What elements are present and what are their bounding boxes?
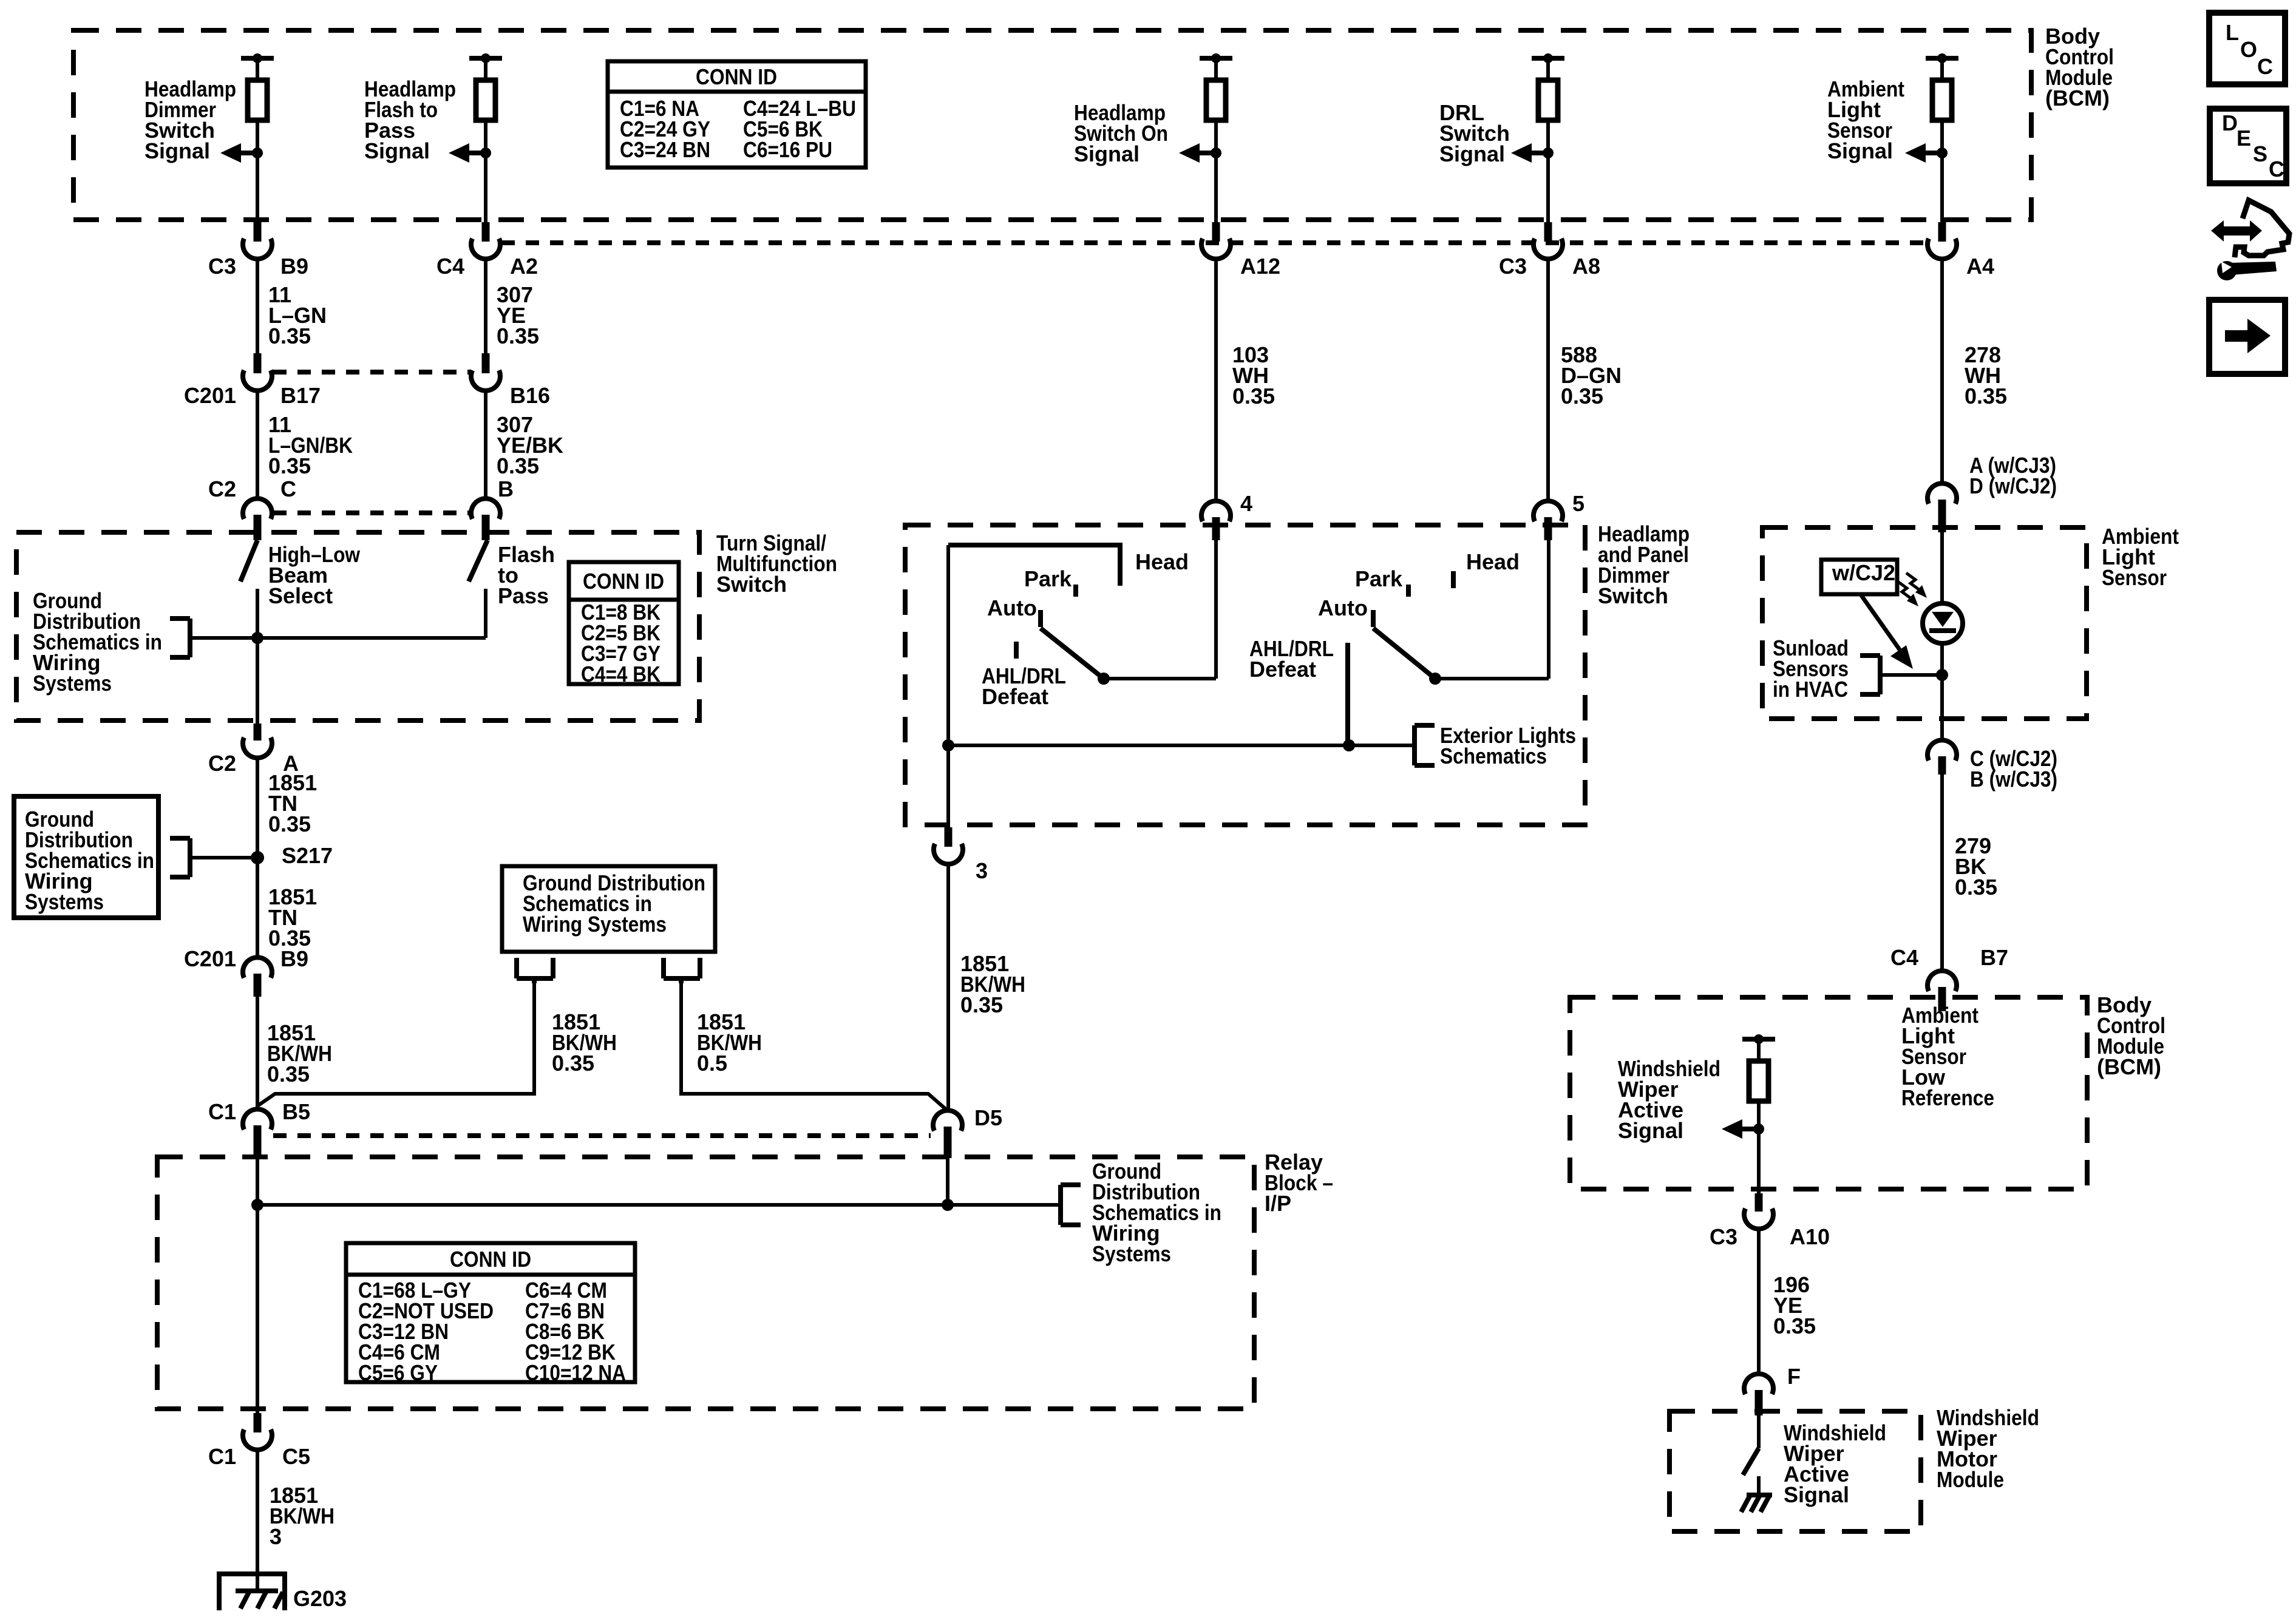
svg-text:0.35: 0.35 — [497, 453, 539, 478]
connector A12 — [1201, 239, 1231, 259]
svg-text:Switch: Switch — [1598, 583, 1668, 608]
svg-text:0.35: 0.35 — [1232, 384, 1275, 408]
switch contact bar right — [1435, 677, 1549, 680]
AHL/DRL defeat line (right) — [1345, 643, 1350, 745]
svg-text:0.35: 0.35 — [268, 453, 311, 478]
pin stub 3 — [945, 827, 953, 847]
svg-text:C: C — [2257, 54, 2273, 79]
svg-text:C2: C2 — [208, 476, 236, 501]
w/CJ2 arrow — [1861, 595, 1901, 651]
svg-text:Systems: Systems — [25, 889, 104, 914]
wire to D5 — [946, 864, 950, 1112]
bracket gnd dist (turn signal box) — [188, 619, 192, 657]
svg-text:C3: C3 — [1710, 1224, 1737, 1249]
junction dot AHL line — [1343, 739, 1355, 751]
svg-text:G203: G203 — [293, 1586, 347, 1611]
switch blade auto right — [1373, 628, 1435, 679]
connector A/D — [1927, 483, 1957, 504]
svg-text:A4: A4 — [1966, 254, 1994, 279]
wire wiper inside motor module — [1757, 1415, 1761, 1448]
svg-text:D5: D5 — [974, 1105, 1002, 1130]
tick Park left — [1073, 585, 1078, 597]
svg-text:in HVAC: in HVAC — [1773, 677, 1848, 702]
svg-text:C3: C3 — [1499, 254, 1527, 279]
svg-text:Wiring Systems: Wiring Systems — [523, 912, 667, 937]
resistor headlamp dimmer — [248, 80, 267, 120]
svg-text:B7: B7 — [1980, 945, 2008, 970]
pin stub A12 — [1212, 222, 1220, 242]
svg-text:C4: C4 — [1890, 945, 1918, 970]
wire wiper — [1757, 1101, 1761, 1193]
relay ground bus — [257, 1203, 1061, 1207]
photodiode triangle — [1932, 612, 1954, 627]
resistor DRL switch — [1538, 80, 1558, 120]
svg-text:D (w/CJ2): D (w/CJ2) — [1969, 473, 2057, 498]
svg-text:C4=4 BK: C4=4 BK — [581, 662, 661, 686]
connector C201/B17 — [243, 370, 272, 391]
pin stub C2/C — [254, 515, 262, 540]
pin stub 5 — [1544, 517, 1552, 540]
sunload branch wire — [1882, 673, 1942, 677]
Windshield Wiper Motor Module dashed box — [1669, 1411, 1921, 1531]
svg-text:w/CJ2: w/CJ2 — [1832, 560, 1895, 585]
connector C3/A8 — [1533, 239, 1563, 259]
connector C1/C5 — [243, 1429, 272, 1450]
svg-text:D: D — [2222, 110, 2238, 135]
harness outline — [2235, 200, 2289, 257]
pin stub 4 — [1212, 517, 1220, 540]
junction dot w1/ground bar — [251, 632, 263, 644]
next arrow — [2225, 319, 2271, 353]
svg-text:I/P: I/P — [1265, 1191, 1291, 1216]
wire w3 — [1214, 120, 1218, 222]
wire w2 — [484, 120, 487, 222]
bracket sunload — [1878, 656, 1883, 694]
svg-text:CONN ID: CONN ID — [450, 1247, 531, 1272]
svg-text:(BCM): (BCM) — [2045, 86, 2110, 110]
svg-text:Select: Select — [268, 583, 333, 608]
svg-text:Auto: Auto — [1318, 595, 1368, 620]
ground bar in multifunction switch — [190, 636, 486, 640]
svg-text:Defeat: Defeat — [1249, 657, 1316, 682]
wire w4 inside dimmer switch — [1547, 540, 1550, 679]
svg-text:Park: Park — [1355, 566, 1403, 591]
wire w1 top — [256, 58, 259, 80]
pin stub C2/A — [254, 724, 262, 741]
wire wiper top — [1757, 1039, 1761, 1061]
BCM pin bar w3 — [1200, 56, 1232, 61]
svg-text:Signal: Signal — [1784, 1482, 1849, 1507]
svg-text:A10: A10 — [1790, 1224, 1830, 1249]
wire D5 (relay block) — [946, 1158, 949, 1205]
pin stub C/B — [1938, 756, 1946, 775]
wire w1 seg7 (relay block) — [256, 1158, 259, 1413]
wire w3 inside dimmer switch — [1214, 540, 1218, 679]
svg-text:C3=24 BN: C3=24 BN — [620, 137, 710, 162]
ground branch GD right leg — [681, 981, 948, 1111]
connector D5 — [933, 1110, 962, 1131]
switch pivot dot right — [1429, 673, 1441, 685]
exterior lights bar — [948, 744, 1415, 747]
wire w4 top — [1546, 58, 1550, 80]
pin stub A4 — [1938, 222, 1946, 242]
wire w2 seg2 — [484, 259, 487, 353]
tick Auto left — [1038, 610, 1043, 627]
connector C201/B16 — [471, 370, 500, 391]
switch blade wiper — [1743, 1448, 1759, 1475]
svg-text:Signal: Signal — [144, 138, 210, 163]
svg-text:A12: A12 — [1240, 254, 1280, 279]
pin stub C1/B5 — [254, 1125, 262, 1158]
wire w5 top — [1940, 58, 1944, 80]
resistor flash to pass — [476, 80, 495, 120]
pin stub F — [1755, 1390, 1763, 1415]
svg-text:0.35: 0.35 — [497, 324, 539, 348]
wire w5 below diode — [1940, 641, 1944, 719]
light arrow 2 — [1898, 581, 1911, 598]
signal arrow w2 — [449, 143, 469, 163]
svg-text:Head: Head — [1466, 549, 1520, 574]
svg-text:0.35: 0.35 — [1561, 384, 1603, 408]
wire w1 — [256, 120, 259, 222]
svg-text:C: C — [280, 476, 296, 501]
svg-text:B17: B17 — [280, 383, 321, 408]
pin stub A/D — [1938, 500, 1946, 532]
svg-text:C: C — [2269, 157, 2284, 181]
svg-text:Systems: Systems — [1092, 1241, 1171, 1266]
dotted connector line (BCM bottom row) — [501, 240, 1926, 245]
wiper ground symbol — [1747, 1493, 1772, 1497]
switch pivot dot left — [1098, 673, 1110, 685]
CONN ID table (BCM) — [608, 61, 866, 168]
DESC icon box — [2210, 109, 2286, 183]
svg-text:B9: B9 — [280, 254, 308, 279]
wire w3 seg2 — [1214, 259, 1218, 503]
svg-text:0.35: 0.35 — [1965, 384, 2007, 408]
svg-text:S217: S217 — [282, 843, 333, 868]
BCM dashed box (top) — [73, 30, 2031, 220]
BCM pin bar w1 — [241, 56, 274, 61]
wire w1 seg3 — [256, 390, 259, 500]
junction dot sunload — [1936, 669, 1948, 681]
wire w5 into sensor box — [1940, 532, 1944, 606]
Ambient Light Sensor dashed box — [1762, 527, 2087, 719]
svg-text:Auto: Auto — [987, 595, 1037, 620]
wire w5 seg3 — [1940, 775, 1944, 971]
signal arrow w1 — [220, 143, 241, 163]
svg-text:C4: C4 — [436, 254, 464, 279]
svg-text:B9: B9 — [280, 946, 308, 971]
svg-text:CONN ID: CONN ID — [696, 64, 777, 89]
connector C/B — [1927, 740, 1957, 761]
wire w2 top — [484, 58, 487, 80]
wire w2 seg4 (to ground bar) — [484, 589, 487, 638]
dotted connector line (C1/D5 row) — [273, 1133, 931, 1138]
svg-text:E: E — [2237, 126, 2251, 151]
svg-text:C3: C3 — [208, 254, 236, 279]
svg-text:O: O — [2240, 37, 2257, 62]
svg-text:B: B — [498, 476, 514, 501]
svg-text:S: S — [2253, 141, 2267, 166]
pin stub C2/B — [482, 515, 490, 540]
w/CJ2 box — [1821, 560, 1897, 594]
svg-text:Signal: Signal — [1074, 141, 1140, 166]
svg-text:0.35: 0.35 — [960, 992, 1003, 1017]
wire wiper seg2 — [1757, 1229, 1761, 1374]
svg-text:5: 5 — [1572, 491, 1584, 516]
svg-text:C5: C5 — [282, 1444, 310, 1469]
bracket gnd dist (relay block) — [1058, 1185, 1063, 1225]
svg-text:C201: C201 — [184, 383, 236, 408]
pin stub C4/A2 — [482, 222, 490, 242]
svg-text:Defeat: Defeat — [982, 684, 1048, 709]
svg-text:0.35: 0.35 — [267, 1062, 310, 1086]
svg-text:0.35: 0.35 — [552, 1051, 594, 1076]
connector C4/A2 — [471, 239, 500, 259]
signal arrow w3 — [1179, 143, 1200, 163]
bracket S217 — [188, 838, 192, 877]
BCM pin bar w2 — [469, 56, 502, 61]
svg-text:B (w/CJ3): B (w/CJ3) — [1970, 767, 2057, 792]
svg-text:4: 4 — [1240, 491, 1252, 516]
signal arrow w4 — [1511, 143, 1532, 163]
svg-text:Signal: Signal — [364, 138, 430, 163]
svg-text:3: 3 — [270, 1524, 282, 1549]
svg-text:A8: A8 — [1572, 254, 1600, 279]
svg-text:Sensor: Sensor — [2102, 565, 2167, 590]
svg-text:Schematics: Schematics — [1440, 744, 1547, 768]
wire w1 seg2 — [256, 259, 259, 353]
CONN ID table (relay block) — [346, 1243, 635, 1382]
splice S217 — [251, 851, 264, 864]
svg-text:Reference: Reference — [1901, 1085, 1994, 1110]
ground branch w1 to GD leg — [257, 981, 534, 1106]
resistor wiper active signal — [1749, 1061, 1768, 1101]
signal arrow wiper — [1722, 1119, 1742, 1139]
svg-text:3: 3 — [976, 858, 988, 883]
connector C2/B — [471, 498, 500, 519]
tick Park right — [1406, 585, 1411, 597]
ground G203 symbol — [219, 1571, 285, 1576]
GD left leg bracket — [514, 958, 519, 978]
svg-text:L: L — [2226, 20, 2239, 45]
connector C2/C — [243, 498, 272, 519]
svg-text:0.35: 0.35 — [1955, 875, 1997, 900]
wire w1 seg4 — [256, 589, 259, 724]
pin stub D5 — [944, 1127, 952, 1158]
svg-text:B5: B5 — [282, 1099, 310, 1124]
CONN ID table (multifunction switch) — [569, 562, 679, 684]
harness double arrow — [2211, 220, 2262, 242]
svg-text:Head: Head — [1135, 549, 1189, 574]
BCM pin bar w4 — [1532, 56, 1564, 61]
pin stub C3/A10 — [1755, 1193, 1763, 1212]
svg-text:Signal: Signal — [1827, 138, 1893, 163]
junction dot left bus — [942, 739, 954, 751]
tick AHL/DRL left — [1014, 642, 1019, 659]
pin stub C201/B16 — [482, 353, 490, 373]
svg-text:Module: Module — [1937, 1467, 2004, 1492]
connector 3 — [934, 844, 963, 864]
connector C2/A — [243, 737, 272, 758]
switch blade high-low — [240, 540, 257, 581]
wire w5 — [1940, 120, 1944, 222]
connector 5 — [1533, 501, 1563, 521]
pin stub C201/B17 — [254, 353, 262, 373]
connector F — [1744, 1374, 1773, 1394]
svg-text:C201: C201 — [184, 946, 236, 971]
svg-text:0.35: 0.35 — [1773, 1314, 1816, 1338]
Head contact bar left — [948, 545, 1120, 586]
pin stub C4/B7 — [1938, 987, 1946, 1011]
BCM pin bar wiper — [1742, 1037, 1775, 1042]
pin stub C3/B9 — [254, 222, 262, 242]
svg-text:(BCM): (BCM) — [2097, 1054, 2161, 1079]
svg-text:0.35: 0.35 — [268, 812, 311, 836]
tick Head right — [1451, 571, 1456, 588]
wire w5 exit sensor box — [1940, 719, 1944, 741]
junction dot D5 bus — [942, 1199, 954, 1211]
dotted connector line (C201 upper) — [273, 370, 470, 375]
wire w1 seg8 — [256, 1449, 259, 1573]
svg-text:C2: C2 — [208, 751, 236, 776]
wire w1 seg5 — [256, 758, 259, 959]
resistor headlamp switch on — [1206, 80, 1226, 120]
next arrow box — [2209, 300, 2285, 374]
Relay Block dashed box — [157, 1157, 1254, 1409]
wire w1 seg6 — [256, 997, 259, 1111]
switch contact bar left — [1104, 677, 1216, 680]
svg-text:C6=16 PU: C6=16 PU — [743, 137, 832, 162]
photodiode circle — [1923, 603, 1963, 643]
Turn Signal/Multifunction Switch dashed box — [16, 532, 699, 720]
resistor ambient light sensor — [1932, 80, 1952, 120]
tick Auto right — [1371, 610, 1376, 627]
Ground Distribution box (middle) — [502, 866, 715, 952]
svg-text:0.5: 0.5 — [697, 1051, 727, 1076]
wire w5 seg2 — [1940, 259, 1944, 483]
svg-text:Signal: Signal — [1618, 1118, 1683, 1143]
BCM dashed box (lower right) — [1570, 997, 2087, 1189]
svg-text:F: F — [1787, 1364, 1801, 1389]
pin stub C3/A8 — [1544, 222, 1552, 242]
svg-text:0.35: 0.35 — [268, 324, 311, 348]
dimmer switch left bus — [946, 545, 950, 825]
wire w4 seg2 — [1546, 259, 1550, 503]
svg-text:CONN ID: CONN ID — [583, 569, 664, 594]
svg-text:C10=12 NA: C10=12 NA — [525, 1360, 626, 1385]
pin stub C1/C5 — [254, 1413, 262, 1432]
wire w2 seg3 — [484, 390, 487, 500]
connector C4/B7 — [1927, 971, 1957, 991]
svg-text:Signal: Signal — [1439, 141, 1505, 166]
wrench icon — [2217, 261, 2237, 280]
switch blade auto left — [1041, 628, 1104, 679]
svg-text:Systems: Systems — [33, 671, 112, 696]
connector C3/B9 — [243, 239, 272, 259]
wiper ground stub — [1757, 1476, 1761, 1495]
svg-text:A2: A2 — [510, 254, 538, 279]
svg-text:Switch: Switch — [716, 572, 787, 597]
Headlamp and Panel Dimmer Switch dashed box — [905, 525, 1585, 825]
svg-text:C1: C1 — [208, 1444, 236, 1469]
light arrow 1 — [1906, 573, 1920, 590]
connector C1/B5 — [243, 1109, 272, 1130]
svg-text:Pass: Pass — [498, 583, 549, 608]
wire w4 — [1546, 120, 1550, 222]
connector A4 — [1927, 239, 1957, 259]
connector C3/A10 — [1744, 1209, 1773, 1229]
junction dot relay ground bus — [251, 1199, 263, 1211]
connector C201/B9 — [243, 957, 272, 978]
photodiode cathode bar — [1929, 628, 1956, 633]
LOC icon box — [2209, 13, 2285, 84]
dotted connector line (C201 lower) — [273, 510, 470, 515]
wire w3 top — [1214, 58, 1218, 80]
wire S217 branch — [190, 856, 257, 859]
BCM pin bar w5 — [1926, 56, 1958, 61]
svg-text:Park: Park — [1024, 566, 1072, 591]
svg-text:C1: C1 — [208, 1099, 236, 1124]
Ground Distribution box (S217) — [14, 796, 158, 918]
connector 4 — [1201, 501, 1231, 521]
pin stub C201/B9 — [254, 974, 262, 997]
bracket exterior lights — [1412, 725, 1417, 765]
signal arrow w5 — [1905, 143, 1926, 163]
svg-text:C5=6 GY: C5=6 GY — [358, 1360, 438, 1385]
switch blade flash-to-pass — [469, 540, 487, 581]
GD right leg bracket — [661, 958, 666, 978]
svg-text:B16: B16 — [510, 383, 550, 408]
